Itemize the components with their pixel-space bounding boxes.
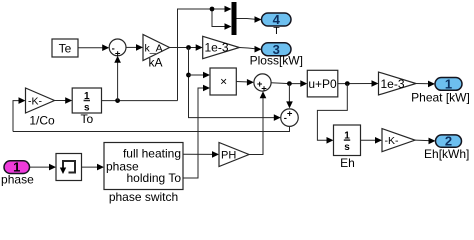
arrowhead into u+P0: [300, 80, 307, 87]
svg-text:s: s: [344, 142, 350, 153]
svg-text:1e-3: 1e-3: [381, 77, 405, 91]
arrowhead into gain 1/Co: [19, 97, 26, 104]
node: junction after u+P0: [345, 81, 350, 86]
wire: To signal up and across top to mux: [178, 9, 229, 101]
svg-text:To: To: [80, 112, 93, 126]
wire: Te to sum: [78, 47, 106, 49]
arrowhead into mux input 2: [225, 23, 232, 30]
svg-text:-K-: -K-: [385, 135, 400, 147]
arrowhead up into sum bottom: [114, 56, 121, 63]
svg-text:+: +: [287, 108, 293, 119]
sum block lower (+ -): [281, 109, 299, 127]
wire: u+P0 output to 1e-3 (Pheat): [338, 83, 375, 85]
svg-text:phase: phase: [1, 172, 34, 186]
arrowhead into mux input 1: [225, 6, 232, 13]
wire: 1/Co to integrator To: [55, 100, 69, 102]
wire: branch down to mux input 2: [212, 9, 228, 27]
arrowhead down into lower sum top: [286, 101, 293, 108]
arrowhead into sum: [102, 44, 109, 51]
svg-text:full heating: full heating: [123, 146, 181, 160]
wire: sum to gain kA: [126, 46, 140, 48]
svg-text:u+P0: u+P0: [308, 77, 337, 91]
sum block (+ +): [254, 74, 271, 91]
wire: holding To up to multiply input 2: [183, 88, 207, 178]
arrowhead into multiply input 1: [203, 72, 210, 79]
svg-text:+: +: [261, 84, 267, 95]
arrowhead into gain 1e-3 (Pheat): [372, 80, 379, 87]
wire: kA output down to multiply and lower sum: [189, 48, 278, 118]
gain PH: [219, 143, 249, 167]
arrowhead into port 4: [255, 16, 262, 23]
svg-text:holding To: holding To: [127, 171, 182, 185]
gain 1e-3 Pheat: [379, 72, 417, 95]
mux block (black bar): [232, 2, 237, 35]
arrowhead into gain PH: [212, 151, 219, 158]
wire: mux output to port T: [237, 19, 258, 20]
svg-text:Eh[kWh]: Eh[kWh]: [424, 147, 469, 161]
wire: rate transition to phase switch: [82, 166, 101, 168]
svg-text:Ploss[kW]: Ploss[kW]: [250, 53, 303, 67]
wire: junction to multiply input 1: [189, 74, 207, 76]
wire: lower sum output down and left (feedback): [13, 126, 290, 131]
wire: full heating to PH gain: [183, 153, 216, 155]
rate transition block: [56, 154, 82, 181]
svg-text:T: T: [273, 25, 280, 37]
wire: u+P0 junction down to integrator Eh: [317, 84, 347, 141]
arrowhead into sum (product): [247, 79, 254, 86]
svg-text:-K-: -K-: [28, 95, 43, 107]
svg-text:1e-3: 1e-3: [205, 41, 229, 55]
wire: To up into sum + input: [117, 60, 119, 101]
subsystem phase switch: [104, 143, 183, 190]
gain 1/Co (-K-): [26, 88, 55, 113]
node: junction at multiply input: [186, 73, 191, 78]
wire: gain to port 2: [415, 139, 432, 142]
wire: 1e-3 to port 3: [239, 48, 258, 50]
outport 4 T: [262, 13, 292, 26]
arrowhead into lower sum left: [274, 114, 281, 121]
integrator To (1/s): [72, 88, 101, 113]
outport 2 Eh: [436, 135, 462, 147]
outport 1 Pheat: [435, 78, 462, 91]
svg-text:Eh: Eh: [340, 156, 355, 170]
svg-text:Pheat [kW]: Pheat [kW]: [411, 91, 470, 105]
sum block (Te - To): [109, 39, 126, 56]
arrowhead up into sum (+ +) bottom: [260, 91, 267, 98]
wire: 1e-3 to port 1: [416, 83, 432, 85]
arrowhead into integrator To: [65, 97, 72, 104]
gain -K- Eh: [382, 129, 415, 152]
svg-text:1: 1: [445, 77, 452, 92]
arrowhead into gain kA: [136, 44, 143, 51]
multiply block: [210, 68, 236, 95]
arrowhead into gain 1e-3 (Ploss): [196, 44, 203, 51]
wire: gain kA output to 1e-3 gain: [170, 47, 200, 49]
arrowhead into integrator Eh: [327, 137, 334, 144]
wire: PH output up into sum bottom: [249, 98, 263, 155]
arrowhead into gain -K- (Eh): [375, 137, 382, 144]
arrowhead into rate transition: [49, 164, 56, 171]
constant block Te: [52, 39, 78, 57]
arrowhead into port 3: [255, 46, 262, 53]
bias block u+P0: [307, 70, 338, 97]
arrowhead into multiply input 2: [203, 85, 210, 92]
svg-text:k_A: k_A: [145, 42, 163, 54]
wire: Eh to gain -K-: [361, 139, 379, 141]
svg-text:kA: kA: [148, 55, 162, 69]
svg-text:Te: Te: [59, 41, 72, 55]
node: junction on kA output: [186, 45, 191, 50]
svg-text:PH: PH: [221, 149, 236, 161]
node: junction after sum: [287, 81, 292, 86]
outport 3 Ploss: [262, 43, 292, 56]
wire: phase to rate transition: [30, 166, 53, 168]
arrowhead into port 1: [428, 81, 435, 88]
svg-text:phase switch: phase switch: [109, 190, 178, 204]
svg-text:-: -: [284, 113, 287, 124]
svg-text:1/Co: 1/Co: [29, 114, 55, 128]
wire: multiply output to sum: [236, 81, 250, 84]
gain K_A: [143, 35, 170, 61]
node: junction on top line: [210, 7, 215, 12]
arrowhead into port 2: [429, 138, 436, 145]
wire: To output right to riser: [102, 100, 178, 102]
arrowhead into phase switch: [97, 164, 104, 171]
node: junction To output: [115, 98, 120, 103]
inport 1 phase: [4, 161, 30, 174]
svg-text:×: ×: [220, 75, 227, 89]
integrator Eh (1/s): [334, 125, 361, 156]
wire: feedback into 1/Co gain: [13, 101, 22, 132]
wire: junction down into lower sum top: [288, 84, 290, 105]
gain 1e-3 Ploss: [203, 36, 240, 58]
wire: sum output to u+P0: [271, 82, 304, 85]
